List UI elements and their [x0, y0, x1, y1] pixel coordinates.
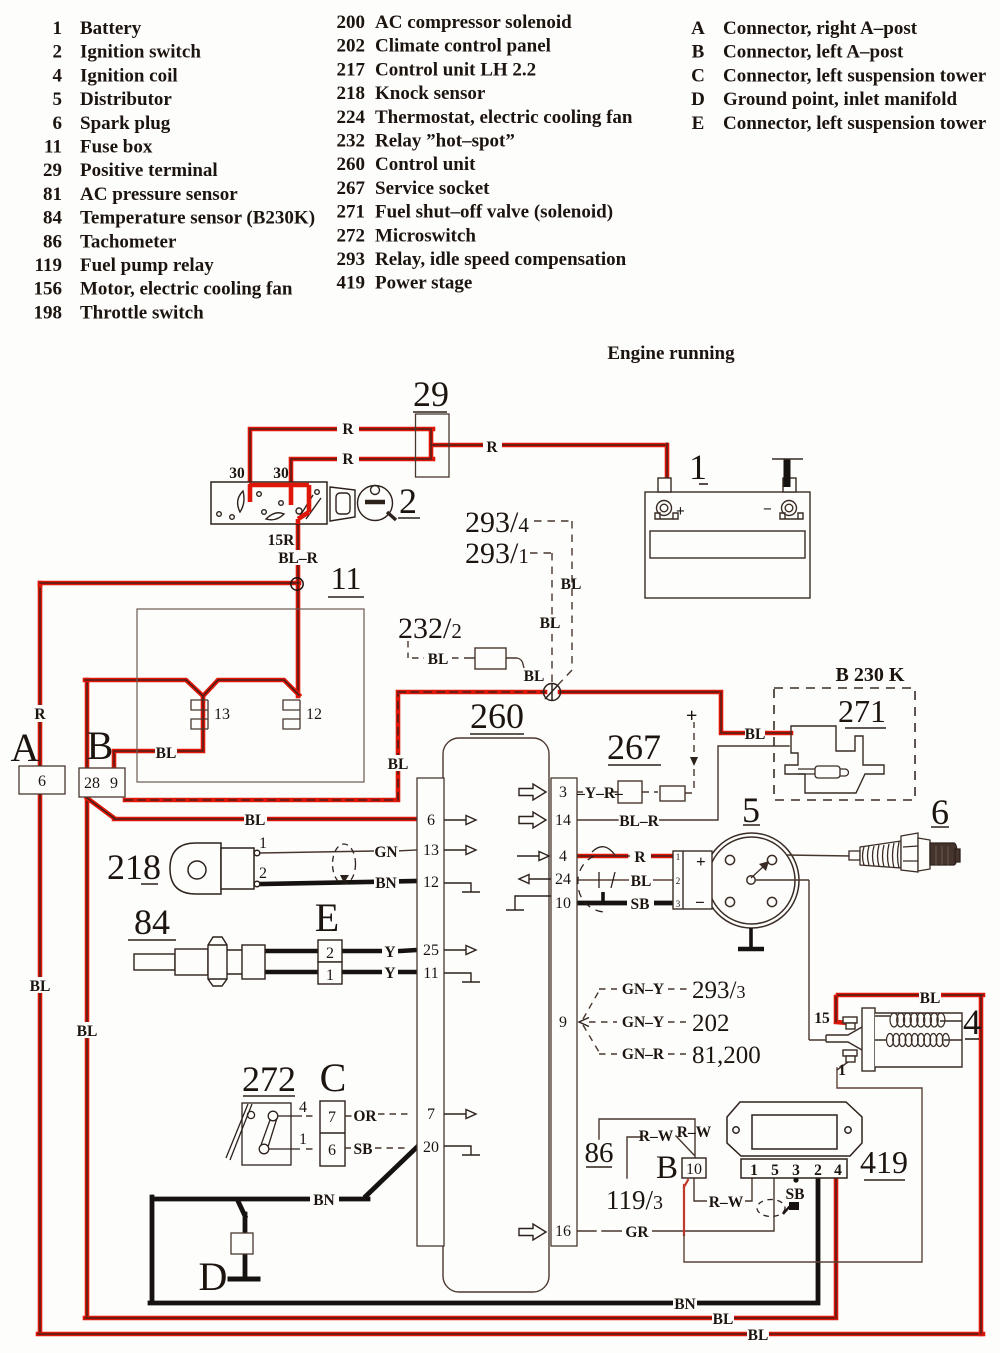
svg-text:16: 16 — [555, 1223, 571, 1240]
dashed relay 293 net above junction — [530, 521, 572, 687]
svg-text:28: 28 — [84, 775, 100, 792]
svg-text:267: 267 — [337, 178, 366, 199]
svg-text:GN–Y: GN–Y — [622, 981, 664, 998]
svg-text:Distributor: Distributor — [80, 89, 172, 110]
svg-text:86: 86 — [43, 231, 62, 252]
svg-text:260: 260 — [337, 154, 366, 175]
wire R 260 pin 4 to ignition coil + — [577, 854, 673, 859]
svg-text:–Y–R–: –Y–R– — [576, 785, 623, 802]
svg-text:10: 10 — [555, 895, 571, 912]
fuse 13 terminals — [191, 700, 208, 729]
chassis symbol pin 11 — [444, 973, 480, 982]
svg-text:Control unit LH 2.2: Control unit LH 2.2 — [375, 59, 536, 80]
line arrow pin 7 — [444, 1110, 476, 1119]
shield loop symbol on 218 wires — [333, 844, 356, 884]
distributor ground — [749, 928, 753, 948]
svg-text:A: A — [11, 725, 40, 770]
svg-text:1: 1 — [53, 18, 63, 39]
svg-text:R–W: R–W — [677, 1124, 712, 1141]
svg-text:271: 271 — [838, 693, 886, 729]
chassis symbol pin 12 — [444, 883, 480, 892]
wire tach signal: coil terminal 1 to connector B 10 — [684, 1180, 688, 1235]
distributor terminal block — [673, 851, 712, 909]
svg-text:6: 6 — [931, 792, 949, 832]
svg-text:D: D — [691, 89, 705, 110]
svg-text:5: 5 — [53, 89, 63, 110]
svg-text:2: 2 — [259, 865, 267, 882]
svg-text:R–W: R–W — [639, 1128, 674, 1145]
svg-text:232/2: 232/2 — [398, 612, 462, 645]
svg-text:Tachometer: Tachometer — [80, 231, 177, 252]
svg-text:Ground point, inlet manifold: Ground point, inlet manifold — [723, 89, 957, 110]
wire R ignition switch feeds and positive terminal 29 — [250, 429, 667, 487]
svg-text:232: 232 — [337, 131, 366, 152]
knock sensor 218 — [170, 843, 260, 894]
svg-text:29: 29 — [43, 160, 62, 181]
connector B 10 box — [682, 1158, 706, 1178]
block arrow pin 14 — [519, 812, 546, 828]
fuel shut-off valve 271 with dashed B230K box — [774, 688, 915, 800]
svg-text:4: 4 — [299, 1099, 307, 1116]
svg-text:BN: BN — [375, 875, 397, 892]
svg-text:217: 217 — [337, 59, 366, 80]
battery negative cable and bar — [784, 459, 791, 487]
svg-text:GN: GN — [374, 844, 397, 861]
wire R inside ignition switch 2 — [249, 484, 309, 524]
wire BN ground bus: 260 pin 20, throttle microswitch SB, ground D, 419 pin 2 — [150, 1147, 818, 1303]
svg-text:293/4: 293/4 — [465, 506, 529, 539]
wire HT lead distributor to coil nose — [755, 880, 826, 1040]
svg-text:1: 1 — [838, 1062, 846, 1079]
coil primary winding — [887, 1013, 950, 1047]
svg-text:20: 20 — [423, 1139, 439, 1156]
svg-text:4: 4 — [963, 1002, 981, 1042]
spark plug 6 — [849, 833, 960, 872]
svg-text:7: 7 — [427, 1106, 435, 1123]
svg-text:BL: BL — [245, 812, 266, 829]
wire BL junction to fuel shut-off valve 271 — [560, 692, 791, 733]
wire R fuse box 11 zigzag from B to fuses 13 and 12 — [85, 680, 299, 766]
svg-text:Service socket: Service socket — [375, 178, 490, 199]
svg-text:+: + — [686, 705, 697, 727]
svg-text:B: B — [692, 42, 705, 63]
svg-text:2: 2 — [676, 876, 681, 886]
svg-text:12: 12 — [306, 706, 322, 723]
svg-text:4: 4 — [559, 848, 567, 865]
fuse box 11 outline — [137, 609, 364, 782]
svg-text:202: 202 — [692, 1010, 730, 1037]
wire BL right-side riser to ignition coil 15 — [836, 995, 983, 1334]
svg-text:R–W: R–W — [709, 1194, 744, 1211]
svg-text:A: A — [691, 18, 705, 39]
connector B box — [79, 768, 125, 797]
svg-text:Throttle switch: Throttle switch — [80, 302, 204, 323]
svg-text:Y: Y — [384, 944, 395, 961]
svg-text:B 230 K: B 230 K — [836, 664, 905, 686]
svg-text:BL–R: BL–R — [619, 813, 659, 830]
svg-text:Power stage: Power stage — [375, 273, 472, 294]
svg-text:+: + — [676, 503, 685, 520]
line arrow pin 6 — [444, 816, 476, 825]
line arrow pin 13 — [444, 846, 476, 855]
svg-text:272: 272 — [242, 1059, 296, 1099]
svg-text:C: C — [691, 65, 705, 86]
svg-text:198: 198 — [34, 302, 63, 323]
svg-text:10: 10 — [686, 1161, 702, 1178]
dashed service socket 267 net from pin 3 — [577, 722, 698, 803]
svg-text:Knock sensor: Knock sensor — [375, 83, 486, 104]
svg-text:81: 81 — [43, 184, 62, 205]
svg-text:419: 419 — [337, 273, 366, 294]
svg-text:B: B — [656, 1150, 678, 1186]
ignition switch 2 key barrel — [330, 486, 396, 522]
junction node at fuse box (29 feed) — [291, 578, 303, 590]
svg-text:29: 29 — [413, 374, 449, 414]
svg-text:271: 271 — [337, 202, 366, 223]
control unit 260 left pin column — [417, 778, 444, 1246]
wire BL 260 pin 24 to distributor 2 — [577, 879, 673, 881]
svg-text:E: E — [692, 113, 705, 134]
svg-text:14: 14 — [555, 812, 571, 829]
svg-text:GN–R: GN–R — [622, 1046, 665, 1063]
svg-text:6: 6 — [328, 1142, 336, 1159]
svg-text:Thermostat, electric cooling f: Thermostat, electric cooling fan — [375, 107, 633, 128]
svg-text:OR: OR — [353, 1108, 377, 1125]
fuse 12 terminals — [283, 700, 300, 729]
shield arc symbol on coil wires — [578, 847, 615, 912]
svg-text:R: R — [634, 849, 646, 866]
svg-text:BL: BL — [748, 1327, 769, 1344]
svg-text:13: 13 — [214, 706, 230, 723]
svg-text:15: 15 — [814, 1010, 830, 1027]
svg-text:−: − — [763, 501, 772, 518]
svg-text:+: + — [696, 852, 706, 871]
positive terminal 29 box — [416, 414, 450, 477]
svg-text:SB: SB — [354, 1141, 373, 1158]
wire R-W connector B 10 to 419 pin 1 — [694, 1178, 752, 1201]
pin number labels — [38, 706, 842, 1240]
main junction circle with cross — [544, 683, 561, 701]
svg-text:BL: BL — [713, 1311, 734, 1328]
chassis symbol pin 10 — [506, 896, 551, 910]
svg-text:BL: BL — [745, 726, 766, 743]
svg-text:1: 1 — [689, 447, 707, 487]
svg-text:BL: BL — [30, 978, 51, 995]
battery 1 — [645, 478, 810, 598]
svg-text:2: 2 — [814, 1162, 822, 1179]
svg-text:Relay, idle speed compensation: Relay, idle speed compensation — [375, 249, 627, 270]
svg-text:2: 2 — [399, 481, 417, 521]
svg-text:D: D — [199, 1254, 228, 1299]
svg-text:Y: Y — [384, 965, 395, 982]
ground D bar — [230, 1277, 258, 1282]
svg-text:−: − — [695, 893, 705, 912]
legend column 2 — [337, 12, 366, 294]
wire BN knock sensor 218 pin 2 to 260 pin 12 — [260, 881, 417, 884]
svg-text:1: 1 — [676, 852, 681, 862]
wire GR 260 pin 16 to 419 pin 5 — [577, 1178, 774, 1231]
svg-text:BL: BL — [77, 1023, 98, 1040]
svg-text:Connector, left A–post: Connector, left A–post — [723, 42, 904, 63]
dashes from 272 to C and from C to 260 — [306, 1114, 412, 1149]
power stage 419 octagon — [727, 1102, 862, 1178]
dashed fan-out from pin 9 — [583, 989, 688, 1054]
svg-text:Fuel shut–off valve (solenoid): Fuel shut–off valve (solenoid) — [375, 202, 613, 223]
svg-text:272: 272 — [337, 225, 366, 246]
svg-text:R: R — [486, 439, 498, 456]
svg-text:260: 260 — [470, 696, 524, 736]
svg-text:11: 11 — [44, 137, 62, 158]
svg-text:24: 24 — [555, 871, 571, 888]
svg-text:218: 218 — [107, 847, 161, 887]
svg-text:84: 84 — [134, 902, 170, 942]
svg-text:R: R — [342, 421, 354, 438]
svg-text:BL: BL — [524, 668, 545, 685]
svg-text:R: R — [342, 451, 354, 468]
svg-text:1: 1 — [326, 967, 334, 984]
block arrow pin 16 — [519, 1224, 546, 1240]
wire BL diagonal connector B 28 to BL feed of 260 pin 6 — [87, 798, 417, 819]
svg-text:293/3: 293/3 — [692, 977, 745, 1004]
svg-text:Ignition switch: Ignition switch — [80, 42, 201, 63]
svg-text:R: R — [34, 706, 46, 723]
svg-text:SB: SB — [786, 1186, 805, 1203]
svg-text:5: 5 — [771, 1162, 779, 1179]
svg-text:25: 25 — [423, 942, 439, 959]
svg-text:E: E — [315, 895, 339, 940]
svg-text:Spark plug: Spark plug — [80, 113, 171, 134]
svg-text:SB: SB — [631, 896, 650, 913]
svg-text:1: 1 — [750, 1162, 758, 1179]
svg-text:C: C — [320, 1055, 347, 1100]
svg-text:5: 5 — [742, 790, 760, 830]
svg-text:293: 293 — [337, 249, 366, 270]
svg-text:Control unit: Control unit — [375, 154, 476, 175]
wire GN knock sensor 218 pin 1 to 260 pin 13 — [260, 850, 417, 853]
svg-text:Connector, right A–post: Connector, right A–post — [723, 18, 918, 39]
svg-text:Fuel pump relay: Fuel pump relay — [80, 255, 214, 276]
svg-text:15R: 15R — [268, 532, 296, 549]
svg-text:GR: GR — [625, 1224, 649, 1241]
svg-text:267: 267 — [607, 727, 661, 767]
svg-text:6: 6 — [427, 812, 435, 829]
svg-text:AC compressor solenoid: AC compressor solenoid — [375, 12, 572, 33]
ignition switch 2 body — [211, 482, 327, 524]
chassis symbol pin 20 — [444, 1146, 480, 1155]
svg-text:9: 9 — [559, 1014, 567, 1031]
260 internal arrows and ground symbols — [444, 784, 589, 1240]
svg-text:1: 1 — [299, 1131, 307, 1148]
svg-text:Ignition coil: Ignition coil — [80, 65, 178, 86]
wire HT distributor to spark plug — [786, 855, 851, 856]
svg-text:Engine running: Engine running — [607, 343, 735, 364]
svg-text:218: 218 — [337, 83, 366, 104]
connector C box — [320, 1101, 345, 1166]
legend column 1 numbers — [34, 18, 63, 323]
block arrow pin 3 — [519, 784, 546, 800]
svg-text:3: 3 — [676, 899, 681, 909]
wire Y temperature sensor 84 via connector E to pins 25 and 11 — [264, 950, 417, 972]
svg-text:1: 1 — [259, 835, 267, 852]
svg-text:GN–Y: GN–Y — [622, 1014, 664, 1031]
wire SB 260 pin 10 to distributor - — [577, 901, 673, 906]
svg-text:BL: BL — [920, 990, 941, 1007]
line arrow pin 4 — [517, 852, 549, 861]
svg-text:Positive terminal: Positive terminal — [80, 160, 218, 181]
svg-text:BL: BL — [388, 756, 409, 773]
svg-text:BN: BN — [313, 1192, 335, 1209]
wire colour-code labels — [30, 420, 941, 1344]
ground point D stem — [238, 1201, 245, 1277]
svg-text:Temperature sensor (B230K): Temperature sensor (B230K) — [80, 208, 315, 229]
svg-text:12: 12 — [423, 874, 439, 891]
svg-text:119/3: 119/3 — [606, 1185, 663, 1215]
svg-text:2: 2 — [326, 945, 334, 962]
connector E boxes — [318, 940, 342, 984]
distributor 5 — [704, 833, 799, 928]
svg-text:6: 6 — [53, 113, 63, 134]
svg-text:202: 202 — [337, 36, 366, 57]
svg-text:6: 6 — [38, 773, 46, 790]
svg-text:30: 30 — [229, 465, 245, 482]
ignition coil 4 — [826, 1008, 968, 1071]
svg-text:13: 13 — [423, 842, 439, 859]
coil terminal 1 wire down to tach line — [837, 1062, 848, 1070]
svg-text:BL: BL — [631, 873, 652, 890]
svg-text:7: 7 — [328, 1109, 336, 1126]
dashed loop on 419 pin 5 wire — [757, 1200, 785, 1217]
relay 232/2 dashed stub and resistor — [408, 641, 524, 669]
svg-text:3: 3 — [559, 784, 567, 801]
svg-text:30: 30 — [273, 465, 289, 482]
svg-text:81,200: 81,200 — [692, 1042, 761, 1069]
ground D bolt — [231, 1233, 253, 1254]
svg-text:Climate control panel: Climate control panel — [375, 36, 551, 57]
microswitch 272 — [226, 1103, 302, 1165]
svg-text:BL–R: BL–R — [278, 550, 318, 567]
svg-text:11: 11 — [423, 965, 438, 982]
wire R supply outer loop: node A to bottom BL bus to coil terminal 15 — [38, 583, 983, 1334]
SB splice flag below 419 pin 3 — [789, 1202, 799, 1210]
svg-text:224: 224 — [337, 107, 366, 128]
line arrow pin 25 — [444, 946, 476, 955]
line arrow pin 24 (left pointing) — [519, 875, 551, 884]
control unit 260 center body — [443, 738, 549, 1292]
svg-text:4: 4 — [53, 65, 63, 86]
svg-text:BL: BL — [561, 576, 582, 593]
svg-text:Battery: Battery — [80, 18, 142, 39]
fan arrow pin 9 — [579, 1018, 589, 1027]
wire R-W tachometer 86 bracket to connector B 10 — [599, 1119, 695, 1178]
svg-text:Fuse box: Fuse box — [80, 137, 153, 158]
svg-text:293/1: 293/1 — [465, 537, 529, 570]
svg-text:BL: BL — [540, 615, 561, 632]
svg-text:2: 2 — [53, 42, 63, 63]
svg-text:BL: BL — [428, 651, 449, 668]
svg-text:9: 9 — [110, 775, 118, 792]
svg-text:Connector, left suspension tow: Connector, left suspension tower — [723, 65, 987, 86]
svg-text:AC pressure sensor: AC pressure sensor — [80, 184, 238, 205]
svg-text:11: 11 — [331, 560, 362, 596]
control unit 260 right pin column — [551, 778, 577, 1246]
connector A box — [19, 766, 65, 794]
svg-text:3: 3 — [792, 1162, 800, 1179]
wire BL dashed route: connector B 9 to main junction (relay 293 feed) — [125, 692, 545, 800]
wire BL-R 260 pin 14 to valve 271 — [577, 746, 789, 820]
svg-text:Microswitch: Microswitch — [375, 225, 476, 246]
svg-text:200: 200 — [337, 12, 366, 33]
419 pin 3 dot — [793, 1177, 798, 1182]
svg-text:Motor, electric cooling fan: Motor, electric cooling fan — [80, 279, 293, 300]
svg-text:B: B — [87, 723, 114, 768]
svg-text:BN: BN — [674, 1296, 696, 1313]
svg-text:BL: BL — [156, 745, 177, 762]
svg-text:86: 86 — [585, 1137, 614, 1169]
svg-text:4: 4 — [834, 1162, 842, 1179]
wire R top horizontal to junction and BL-R drop to fuse 12 — [40, 524, 299, 696]
wire BL inner loop: connector B 28 to bottom bus to power stage 419 pin 4 — [85, 680, 836, 1318]
temperature sensor 84 — [134, 937, 265, 986]
svg-text:156: 156 — [34, 279, 63, 300]
svg-text:419: 419 — [860, 1144, 908, 1180]
legend column 3 — [691, 18, 705, 134]
svg-text:Connector, left suspension tow: Connector, left suspension tower — [723, 113, 987, 134]
svg-text:84: 84 — [43, 208, 63, 229]
svg-text:Relay ”hot–spot”: Relay ”hot–spot” — [375, 131, 515, 152]
svg-text:119: 119 — [35, 255, 62, 276]
